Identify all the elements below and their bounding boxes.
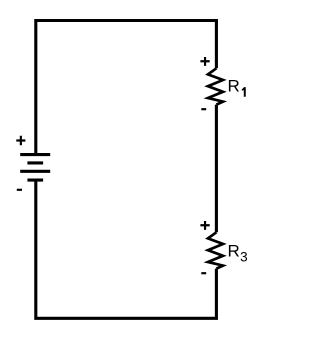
svg-text:3: 3	[240, 249, 248, 264]
svg-text:R: R	[228, 242, 240, 261]
svg-text:R: R	[228, 77, 240, 96]
